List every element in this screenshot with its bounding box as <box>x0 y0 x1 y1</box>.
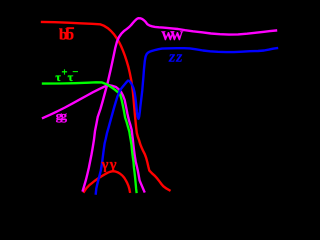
curve gamma-gamma (red) <box>84 171 130 192</box>
label tau+tau- <box>55 67 78 84</box>
svg-text:τ: τ <box>55 70 61 84</box>
svg-text:gg: gg <box>56 108 68 123</box>
curve WW (magenta) <box>83 18 276 190</box>
curve bb (red) <box>42 22 170 190</box>
svg-text:+: + <box>62 68 68 79</box>
svg-text:−: − <box>72 67 78 78</box>
svg-text:γγ: γγ <box>101 157 117 173</box>
svg-text:ZZ: ZZ <box>168 53 183 64</box>
curve tau tau (green) <box>43 82 137 192</box>
curve gg (magenta) <box>43 85 144 192</box>
curve ZZ (blue) <box>96 48 277 193</box>
label bb <box>59 27 74 44</box>
svg-text:WW: WW <box>161 28 183 43</box>
